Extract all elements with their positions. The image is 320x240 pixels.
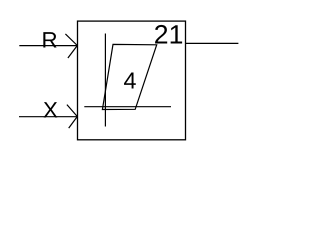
svg-text:X: X (43, 97, 58, 122)
svg-text:R: R (42, 27, 58, 52)
svg-text:4: 4 (124, 68, 137, 94)
svg-text:21: 21 (154, 19, 184, 49)
